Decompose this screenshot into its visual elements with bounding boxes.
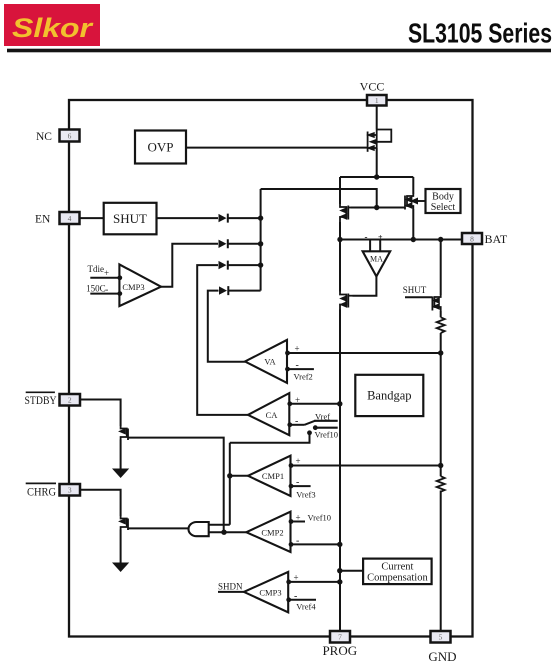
OVP block xyxy=(135,131,186,164)
svg-text:150C: 150C xyxy=(86,283,106,293)
pin 2 STDBY xyxy=(60,394,81,406)
transistor Mt1 xyxy=(120,426,128,440)
wire Mt2 source to ground arrow xyxy=(120,530,122,564)
junction CMP2 plus edge dot xyxy=(289,519,294,524)
junction CMP2 output dot xyxy=(221,530,226,535)
outer border frame wire xyxy=(69,100,473,637)
junction CA minus edge dot xyxy=(287,422,292,427)
svg-text:Select: Select xyxy=(431,202,456,213)
svg-text:Vref: Vref xyxy=(315,411,330,421)
wire D2 to bus xyxy=(228,243,261,245)
svg-text:Vref4: Vref4 xyxy=(296,602,316,612)
junction Vref10 stub dot xyxy=(313,425,318,430)
wire BAT rail xyxy=(340,239,462,241)
junction gate bus dot xyxy=(374,205,379,210)
body select arrowhead into Q3 xyxy=(410,198,418,205)
diode D3 xyxy=(219,261,229,270)
Current Compensation block xyxy=(363,559,432,585)
svg-text:-: - xyxy=(294,591,297,602)
junction BAT rail Q3 dot xyxy=(411,237,416,242)
wire switch control riser xyxy=(230,433,310,443)
comparator CMP2 xyxy=(246,512,290,552)
Body Select block xyxy=(426,189,461,213)
svg-text:-: - xyxy=(365,232,368,242)
svg-text:1: 1 xyxy=(375,96,379,105)
svg-text:CMP2: CMP2 xyxy=(261,528,283,538)
junction BAT rail Q2 dot xyxy=(337,237,342,242)
svg-text:Bandgap: Bandgap xyxy=(367,389,411,403)
wire CMP3 thermal output riser to D2 xyxy=(161,244,218,287)
transistor Q2 xyxy=(340,204,351,222)
svg-text:VCC: VCC xyxy=(360,80,385,94)
svg-text:Slkor: Slkor xyxy=(12,13,94,43)
junction CMP2 minus edge dot xyxy=(289,542,294,547)
wire diode bus top link xyxy=(261,189,377,208)
SHUT block xyxy=(104,203,157,235)
svg-text:SHUT: SHUT xyxy=(113,211,147,226)
Bandgap block xyxy=(355,375,423,416)
comparator CMP1 xyxy=(248,456,291,496)
wire node A to Q2 xyxy=(339,177,341,204)
svg-text:+: + xyxy=(296,512,301,522)
wire VA plus input to divider tap xyxy=(287,352,441,354)
wire CMP3 plus to PROG column xyxy=(288,581,340,583)
wire Mt2 gate to AND output xyxy=(128,527,190,529)
op-amp VA xyxy=(245,340,287,383)
junction Current Compensation PROG dot xyxy=(337,568,342,573)
wire CMP3 thermal input stub 150C xyxy=(90,293,119,295)
wire R2 to GND pin xyxy=(440,491,442,632)
wire STDBY pin to Mt1 xyxy=(80,400,121,427)
svg-text:Vref3: Vref3 xyxy=(296,490,315,500)
svg-text:SL3105 Series: SL3105 Series xyxy=(408,18,552,49)
svg-text:STDBY: STDBY xyxy=(25,395,58,407)
svg-text:-: - xyxy=(105,285,108,296)
wire CHRG pin to Mt2 xyxy=(80,490,121,516)
wire D1 to bus xyxy=(228,217,261,219)
junction D1 bus dot xyxy=(258,215,263,220)
comparator CMP3 thermal xyxy=(119,264,161,306)
svg-text:GND: GND xyxy=(428,649,456,664)
wire Q1 drain down to node A xyxy=(376,148,378,177)
wire CMP1 output to AND riser B xyxy=(230,475,248,477)
wire R1 to CMP1 plus node xyxy=(440,333,442,476)
svg-text:Vref10: Vref10 xyxy=(315,430,339,440)
wire VCC pin to Q1 xyxy=(376,106,378,130)
junction CA plus edge dot xyxy=(287,401,292,406)
wire rail node A horizontal xyxy=(340,176,413,178)
diode D4 xyxy=(219,286,229,295)
svg-text:-: - xyxy=(296,477,299,488)
svg-text:+: + xyxy=(295,395,300,405)
svg-text:5: 5 xyxy=(439,633,443,642)
wire CMP1 plus input to divider xyxy=(291,465,441,467)
junction D2 bus dot xyxy=(258,241,263,246)
svg-text:PROG: PROG xyxy=(322,643,357,658)
transistor Q5 xyxy=(432,295,441,311)
junction VA plus edge dot xyxy=(285,351,290,356)
comparator CMP3 xyxy=(244,572,288,612)
svg-text:+: + xyxy=(295,344,300,354)
header rule xyxy=(7,49,551,53)
wire Body Select to Q3 xyxy=(413,200,426,202)
svg-text:-: - xyxy=(296,360,299,371)
svg-text:CA: CA xyxy=(266,410,279,420)
svg-text:CMP1: CMP1 xyxy=(262,471,284,481)
pin 7 PROG xyxy=(330,631,350,643)
logo Slkor xyxy=(4,4,100,46)
wire switch arm xyxy=(305,421,316,425)
svg-text:8: 8 xyxy=(470,235,474,244)
wire CMP1 minus stub xyxy=(291,485,311,487)
resistor R1 xyxy=(437,317,445,333)
wire CMP3 minus stub xyxy=(288,599,316,601)
svg-text:SHUT: SHUT xyxy=(403,285,427,295)
pin 6 NC xyxy=(60,130,80,142)
op-amp MA xyxy=(363,251,391,276)
STDBY overline xyxy=(26,391,55,393)
svg-text:EN: EN xyxy=(35,214,51,226)
CHRG overline xyxy=(26,482,56,484)
diode D1 xyxy=(219,214,229,223)
wire CA plus input to PROG column xyxy=(289,403,340,405)
wire CA minus stub xyxy=(289,424,304,426)
svg-text:Vref2: Vref2 xyxy=(294,372,313,382)
wire PROG column Q4 source down to pin 7 xyxy=(339,310,341,632)
wire D4 to bus xyxy=(229,290,261,292)
svg-text:7: 7 xyxy=(338,633,342,642)
wire Vref10 stub xyxy=(315,427,338,429)
junction CA plus PROG dot xyxy=(337,401,342,406)
AND gate U1 xyxy=(188,522,208,536)
svg-text:SHDN: SHDN xyxy=(218,581,243,591)
pin 4 EN xyxy=(60,212,80,224)
transistor Mt2 xyxy=(120,516,128,530)
diode D2 xyxy=(219,239,229,248)
wire CA output riser to D3 xyxy=(197,265,248,415)
junction CMP1 plus edge dot xyxy=(289,463,294,468)
junction VA plus divider dot xyxy=(438,350,443,355)
wire riser A CMP2 output to Mt1 gate xyxy=(128,438,224,533)
svg-text:Compensation: Compensation xyxy=(367,573,428,584)
wire CMP2 output to AND lower input xyxy=(209,531,247,533)
junction CMP3 thermal Tdie dot xyxy=(117,275,122,280)
junction CMP1 output riser dot xyxy=(227,473,232,478)
wire BAT rail to Q4 xyxy=(339,240,341,292)
wire node A to Q3 xyxy=(412,177,414,194)
wire riser B vertical xyxy=(229,443,231,525)
junction CMP1 minus edge dot xyxy=(289,484,294,489)
svg-text:-: - xyxy=(296,535,299,546)
svg-text:Vref10: Vref10 xyxy=(308,513,332,523)
transistor Q4 xyxy=(340,292,353,310)
svg-text:+: + xyxy=(378,233,383,242)
transistor Q1 diode-connected pass PMOS xyxy=(368,130,392,152)
pin 5 GND xyxy=(431,631,451,643)
wire diode bus vertical xyxy=(260,189,262,291)
svg-text:6: 6 xyxy=(68,132,72,141)
svg-text:Tdie: Tdie xyxy=(88,264,105,274)
junction CMP3 minus edge dot xyxy=(286,597,291,602)
wire gate bus Q2-Q3 xyxy=(351,207,405,209)
junction VA minus edge dot xyxy=(285,367,290,372)
wire VA minus stub xyxy=(287,368,314,370)
wire D3 to bus xyxy=(228,264,261,266)
wire CMP3 output SHDN stub xyxy=(218,591,244,593)
svg-text:+: + xyxy=(294,573,299,583)
wire SHUT net stub to Q5 gate xyxy=(405,296,432,298)
junction CMP3 thermal 150C dot xyxy=(117,291,122,296)
svg-text:BAT: BAT xyxy=(485,232,508,246)
svg-text:+: + xyxy=(104,268,109,278)
wire MA input stub plus xyxy=(379,240,381,252)
svg-text:Body: Body xyxy=(432,192,454,203)
svg-text:2: 2 xyxy=(68,396,72,405)
wire Q2 to BAT rail xyxy=(339,222,341,240)
wire MA input stub minus xyxy=(369,240,371,252)
wire Vref stub xyxy=(314,420,337,422)
resistor R2 xyxy=(437,476,445,492)
junction CMP2 minus PROG dot xyxy=(337,542,342,547)
wire SHUT output to diode D1 xyxy=(157,217,219,219)
wire OVP output to Q1 gate xyxy=(186,147,368,149)
wire riser B to AND upper input xyxy=(209,524,230,526)
svg-text:VA: VA xyxy=(264,357,276,367)
wire Q5 source to resistor R1 xyxy=(440,311,442,317)
junction BAT rail divider dot xyxy=(438,237,443,242)
op-amp CA xyxy=(248,393,289,435)
wire Current Compensation to PROG column xyxy=(340,570,363,572)
svg-text:-: - xyxy=(295,416,298,427)
svg-text:CMP3: CMP3 xyxy=(122,282,144,292)
junction CMP1 plus divider dot xyxy=(438,463,443,468)
ground arrow below Mt1 xyxy=(112,469,129,479)
wire BAT rail to Q5 xyxy=(440,240,442,296)
svg-text:4: 4 xyxy=(68,214,72,223)
wire VA output riser to D4 xyxy=(208,291,245,362)
junction switch control dot xyxy=(307,430,312,435)
svg-text:MA: MA xyxy=(370,255,383,264)
pin boxes xyxy=(60,95,483,643)
wire Q3 to BAT rail xyxy=(412,209,414,240)
svg-text:CHRG: CHRG xyxy=(27,487,56,499)
ground arrow below Mt2 xyxy=(112,563,129,573)
wire CMP3 thermal input stub Tdie xyxy=(90,277,119,279)
pin 1 VCC xyxy=(367,95,387,106)
svg-text:Current: Current xyxy=(381,562,413,573)
junction D3 bus dot xyxy=(258,262,263,267)
junction node A dot xyxy=(374,174,379,179)
svg-text:OVP: OVP xyxy=(147,140,173,155)
wire MA output to Q4 gate xyxy=(353,276,377,295)
wire EN pin to SHUT xyxy=(80,217,104,219)
junction CMP3 plus edge dot xyxy=(286,580,291,585)
svg-text:3: 3 xyxy=(68,486,72,495)
pin 8 BAT xyxy=(462,233,482,244)
wire Mt1 source to ground arrow xyxy=(120,440,122,470)
wire CMP2 plus stub xyxy=(291,521,306,523)
transistor Q3 xyxy=(404,194,413,210)
svg-text:CMP3: CMP3 xyxy=(259,587,281,597)
svg-text:NC: NC xyxy=(36,131,52,143)
wire CMP2 minus to PROG column xyxy=(291,543,340,545)
pin 3 CHRG xyxy=(60,484,81,496)
junction CMP3 plus PROG dot xyxy=(337,579,342,584)
svg-text:+: + xyxy=(296,456,301,466)
